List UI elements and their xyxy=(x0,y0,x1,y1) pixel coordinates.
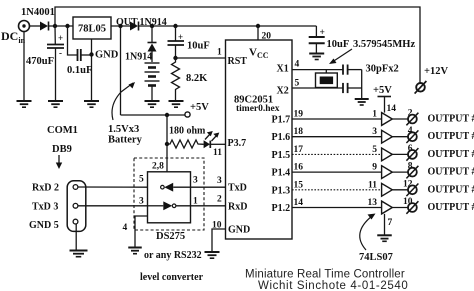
svg-text:GND 5: GND 5 xyxy=(29,220,59,231)
svg-text:P1.5: P1.5 xyxy=(272,150,291,161)
capacitor C4 10uF vcc xyxy=(309,26,325,53)
output terminal 2 xyxy=(406,130,418,143)
svg-text:19: 19 xyxy=(294,110,304,120)
wire DS275 Vcc pins 2,8 xyxy=(166,115,168,173)
svg-text:5: 5 xyxy=(372,145,377,155)
DS275 dashed enclosure xyxy=(134,158,204,230)
74LS07 callout arrow xyxy=(360,214,376,251)
wire X1 pin 4 xyxy=(292,69,343,71)
svg-text:+: + xyxy=(58,33,63,43)
svg-text:3: 3 xyxy=(372,127,377,137)
capacitor C5 30pF xyxy=(343,65,362,75)
wire buf1 out xyxy=(392,118,408,120)
svg-text:18: 18 xyxy=(294,127,304,137)
svg-text:1: 1 xyxy=(217,48,222,58)
svg-text:OUTPUT #2: OUTPUT #2 xyxy=(428,131,474,142)
output terminal 5 xyxy=(406,184,418,197)
svg-text:+12V: +12V xyxy=(424,66,448,77)
wire crystal cap bus xyxy=(361,70,363,99)
wire buf6 out xyxy=(392,207,408,209)
svg-text:RST: RST xyxy=(228,56,248,67)
svg-text:3: 3 xyxy=(217,176,222,186)
ground for DB9 xyxy=(70,251,88,257)
svg-text:14: 14 xyxy=(294,198,304,208)
wire 78L05 GND pin xyxy=(89,39,93,101)
ground for MCU xyxy=(205,252,220,258)
svg-text:0.1uF: 0.1uF xyxy=(67,65,92,76)
svg-text:470uF: 470uF xyxy=(26,56,54,67)
svg-text:OUTPUT #6: OUTPUT #6 xyxy=(428,202,474,213)
wire +12V top rail xyxy=(55,7,420,83)
wire buf5 out xyxy=(392,189,408,191)
buffer U4E xyxy=(382,183,393,196)
crystal callout arrow xyxy=(329,49,352,64)
svg-text:timer0.hex: timer0.hex xyxy=(236,104,280,114)
junction 180ohm node xyxy=(165,142,169,146)
DS275 transmit buffer xyxy=(148,201,176,210)
svg-text:78L05: 78L05 xyxy=(78,24,106,35)
capacitor C2 0.1uF xyxy=(68,26,92,61)
ground for C4 xyxy=(309,54,324,60)
svg-text:OUTPUT #5: OUTPUT #5 xyxy=(428,184,474,195)
svg-text:or any RS232: or any RS232 xyxy=(144,250,202,261)
label 1.5Vx3 Battery xyxy=(108,124,143,146)
svg-text:GND: GND xyxy=(95,50,119,61)
resistor R1 8.2K xyxy=(172,58,180,101)
ground for C1 xyxy=(48,101,63,107)
svg-text:OUTPUT #1: OUTPUT #1 xyxy=(428,114,474,125)
svg-text:10uF: 10uF xyxy=(187,41,210,52)
svg-text:OUTPUT #3: OUTPUT #3 xyxy=(428,149,474,160)
wire buf2 out xyxy=(392,136,408,138)
svg-text:3.579545MHz: 3.579545MHz xyxy=(353,39,415,50)
svg-text:RxD 2: RxD 2 xyxy=(32,183,59,194)
svg-text:20: 20 xyxy=(262,32,272,42)
wire P1.4 xyxy=(292,171,382,173)
wire RST to MCU pin 1 xyxy=(176,57,226,59)
svg-text:P1.3: P1.3 xyxy=(272,185,291,196)
svg-text:5: 5 xyxy=(295,79,300,89)
output terminal 4 xyxy=(406,166,418,179)
buffer U4B xyxy=(382,130,393,143)
wire MCU pin 20 Vcc xyxy=(257,26,259,40)
regulator U2 78L05 xyxy=(73,17,111,39)
svg-text:1N4001: 1N4001 xyxy=(21,7,55,18)
resistor R2 180 ohm xyxy=(167,140,204,148)
svg-text:17: 17 xyxy=(294,145,304,155)
wire P1.7 xyxy=(292,118,382,120)
wire 78L05 out xyxy=(111,24,130,28)
svg-text:+5V: +5V xyxy=(190,102,209,113)
svg-text:OUTPUT #4: OUTPUT #4 xyxy=(428,167,474,178)
+12V terminal xyxy=(415,81,427,94)
svg-text:74LS07: 74LS07 xyxy=(359,252,393,263)
output terminal 1 xyxy=(406,113,418,126)
wire X2 pin 5 xyxy=(292,87,343,89)
diode D2 1N914 xyxy=(130,22,139,31)
svg-text:3: 3 xyxy=(139,197,144,207)
ground for 74LS07 xyxy=(377,235,392,241)
svg-text:P1.6: P1.6 xyxy=(272,132,291,143)
svg-text:COM1: COM1 xyxy=(47,125,78,136)
ground for crystal caps xyxy=(355,99,369,105)
buffer U4D xyxy=(382,166,393,179)
svg-text:DS275: DS275 xyxy=(156,231,185,242)
buffer U4F xyxy=(382,201,393,214)
ground for battery xyxy=(145,101,160,107)
diode D1 1N4001 xyxy=(40,22,49,31)
wire 74LS07 pin 7 gnd xyxy=(384,214,386,235)
svg-text:1: 1 xyxy=(193,197,198,207)
svg-text:11: 11 xyxy=(213,148,222,158)
wire buf4 out xyxy=(392,171,408,173)
capacitor C3 10uF reset xyxy=(168,26,185,60)
svg-text:8.2K: 8.2K xyxy=(186,73,208,84)
battery callout arrow xyxy=(112,83,133,120)
DS275 receive buffer xyxy=(161,183,191,192)
svg-text:2: 2 xyxy=(217,195,222,205)
svg-text:7: 7 xyxy=(388,218,393,228)
ground for 78L05 xyxy=(84,101,99,107)
svg-text:P1.2: P1.2 xyxy=(272,203,291,214)
wire 74LS07 pin 14 supply xyxy=(378,97,392,113)
wire P1.2 xyxy=(292,207,382,209)
svg-text:TxD 3: TxD 3 xyxy=(32,202,58,213)
svg-text:3: 3 xyxy=(193,176,198,186)
diode D3 1N914 battery isolation xyxy=(148,26,157,62)
svg-text:16: 16 xyxy=(294,163,304,173)
svg-text:1: 1 xyxy=(372,110,377,120)
wire D1 to 78L05 input xyxy=(49,24,73,28)
svg-text:P3.7: P3.7 xyxy=(228,138,247,149)
crystal Y1 xyxy=(316,70,338,88)
wire DS275 gnd pin 4 xyxy=(135,216,148,247)
DB9 connector P1 xyxy=(67,181,86,232)
ground for R1 xyxy=(169,101,184,107)
wire +5V rail xyxy=(121,113,185,117)
battery BT1 1.5Vx3 xyxy=(145,63,160,101)
wire P1.3 xyxy=(292,189,382,191)
svg-text:RxD: RxD xyxy=(228,202,247,213)
wire buf3 out xyxy=(392,153,408,155)
svg-text:P1.4: P1.4 xyxy=(272,168,291,179)
wire P1.6 xyxy=(292,136,382,138)
wire +5V drop from regulator output xyxy=(120,26,122,115)
svg-text:VCC: VCC xyxy=(249,47,269,61)
wire P1.5 xyxy=(292,153,382,155)
svg-text:5: 5 xyxy=(139,175,144,185)
svg-text:180 ohm: 180 ohm xyxy=(169,126,206,137)
svg-text:DB9: DB9 xyxy=(52,144,72,155)
ground for DC jack xyxy=(17,101,32,107)
svg-text:TxD: TxD xyxy=(228,183,247,194)
svg-text:level converter: level converter xyxy=(140,272,204,283)
svg-text:10uF: 10uF xyxy=(327,39,350,50)
output terminal 6 xyxy=(406,201,418,214)
svg-text:Battery: Battery xyxy=(108,135,143,146)
svg-text:9: 9 xyxy=(372,163,377,173)
LED D4 xyxy=(204,131,226,148)
svg-text:P1.7: P1.7 xyxy=(272,115,291,126)
wire DB9 pin3 to DS275 xyxy=(78,205,148,207)
svg-text:4: 4 xyxy=(295,60,300,70)
svg-text:14: 14 xyxy=(387,104,397,114)
svg-text:+5V: +5V xyxy=(373,85,392,96)
ground for DS275 xyxy=(128,248,142,254)
svg-text:1.5Vx3: 1.5Vx3 xyxy=(108,124,139,135)
svg-text:15: 15 xyxy=(294,180,304,190)
svg-text:4: 4 xyxy=(123,223,128,233)
svg-text:Wichit Sinchote 4-01-2540: Wichit Sinchote 4-01-2540 xyxy=(258,280,408,291)
svg-text:13: 13 xyxy=(368,198,378,208)
svg-text:GND: GND xyxy=(228,225,250,236)
wire DB9 pin2 to DS275 xyxy=(78,186,148,188)
wire Vcc rail y26 xyxy=(139,24,316,28)
wire jack to D1 xyxy=(30,25,41,27)
svg-text:Miniature Real Time Controller: Miniature Real Time Controller xyxy=(245,269,405,281)
MCU U1 89C2051 body xyxy=(226,40,293,239)
arrow DB9 xyxy=(56,155,62,169)
buffer U4C xyxy=(382,148,393,161)
capacitor C6 30pF xyxy=(343,83,362,93)
svg-text:1N914: 1N914 xyxy=(125,52,152,63)
svg-text:2,8: 2,8 xyxy=(152,162,164,172)
wire DS275 to MCU TxD xyxy=(191,186,226,188)
svg-text:X1: X1 xyxy=(277,64,289,75)
capacitor C1 470uF xyxy=(47,26,64,101)
output terminal 3 xyxy=(406,148,418,161)
svg-text:11: 11 xyxy=(368,180,377,190)
svg-text:-: - xyxy=(59,48,62,58)
svg-text:X2: X2 xyxy=(277,86,289,97)
DC input jack J1 xyxy=(19,21,30,101)
DS275 U3 body xyxy=(148,172,191,223)
svg-text:30pFx2: 30pFx2 xyxy=(366,64,399,75)
buffer U4A xyxy=(382,113,393,126)
wire DS275 to MCU RxD xyxy=(176,205,226,207)
+5V terminal xyxy=(185,112,190,117)
wire DB9 shell to ground xyxy=(75,224,77,250)
wire MCU gnd pin 10 xyxy=(212,229,226,252)
